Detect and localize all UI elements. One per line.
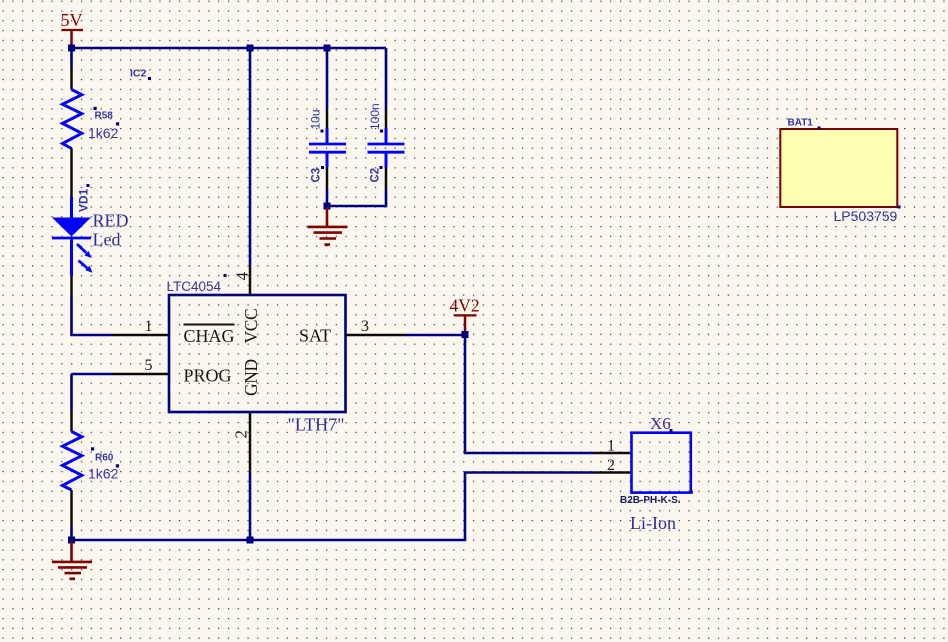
svg-text:SAT: SAT [299,326,331,346]
junction bottom-left [68,537,75,544]
svg-text:VD1: VD1 [77,188,91,212]
battery BAT1 [780,118,900,225]
svg-text:1: 1 [607,438,615,455]
svg-text:X6: X6 [650,414,671,433]
ground symbol below caps [308,207,348,245]
LED VD1 [52,184,129,276]
pin 3 SAT [299,318,406,346]
svg-text:GND: GND [241,359,261,396]
label IC2 [130,68,151,81]
svg-text:10u: 10u [309,109,323,129]
wire pin3 to 4V2 node [406,334,465,337]
junction VCC rail [247,45,254,52]
svg-text:BAT1: BAT1 [788,118,814,129]
svg-text:LTC4054: LTC4054 [167,279,222,294]
pin 2 GND [232,359,262,473]
wire pin2 IC to bottom rail [249,473,252,540]
wire 4V2 node down to X6 pin1 [465,335,594,453]
svg-text:3: 3 [361,318,369,335]
svg-text:C2: C2 [370,168,382,183]
connector X6 [594,414,693,533]
IC U2 LTC4054 "LTH7" body [167,274,346,435]
ground symbol bottom-left [52,541,92,579]
svg-text:5: 5 [145,357,153,374]
capacitor C3 [309,48,347,206]
svg-text:4: 4 [233,272,252,281]
pin 1 CHAG [112,318,235,346]
capacitor C2 [327,48,405,206]
svg-text:C3: C3 [311,168,323,183]
svg-text:1k62: 1k62 [88,125,119,141]
resistor R58 [63,68,120,197]
wire pin5 PROG to R60 [72,374,113,411]
svg-text:4V2: 4V2 [450,296,480,316]
svg-text:Li-Ion: Li-Ion [630,513,676,533]
junction 4V2 node [462,331,469,338]
svg-text:100n: 100n [368,103,382,130]
svg-text:R60: R60 [95,453,114,464]
power symbol 5V [61,10,84,48]
power symbol 4V2 [450,296,480,335]
svg-text:CHAG: CHAG [184,326,235,346]
junction pin2 bottom rail [247,537,254,544]
junction caps bottom [324,203,331,210]
wire LED to pin1 corner [72,276,113,335]
svg-text:2: 2 [607,457,615,474]
wire 5V top rail [72,47,387,50]
svg-text:VCC: VCC [241,309,261,344]
svg-text:"LTH7": "LTH7" [288,415,345,435]
svg-text:2: 2 [232,430,251,439]
svg-text:R58: R58 [95,111,114,122]
svg-text:1: 1 [145,318,153,335]
svg-text:B2B-PH-K-S.: B2B-PH-K-S. [620,495,681,506]
svg-text:PROG: PROG [184,366,232,386]
svg-text:IC2: IC2 [130,68,147,80]
svg-text:RED: RED [93,211,129,231]
pin 4 VCC [233,266,262,344]
wire VCC rail to pin4 [249,48,252,266]
wire left vertical to R58 [70,48,73,68]
svg-text:1k62: 1k62 [88,466,119,482]
wire bottom rail [72,473,595,541]
svg-text:5V: 5V [61,10,83,30]
svg-text:Led: Led [93,230,121,250]
svg-text:LP503759: LP503759 [834,208,898,224]
pin 5 PROG [112,357,232,386]
junction top-left [68,45,75,52]
junction C3 rail [324,45,331,52]
resistor R60 [63,411,120,540]
